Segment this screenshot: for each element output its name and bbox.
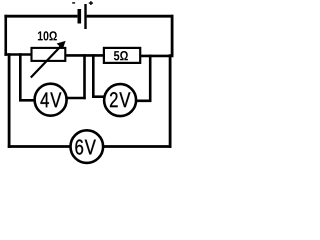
battery cell positive plate (long thin) <box>84 4 86 29</box>
resistor R1 body (10 ohm rheostat) <box>32 48 66 61</box>
wire V2 right drop <box>149 55 152 102</box>
wire top-left (to battery negative) <box>4 15 77 18</box>
label 5 ohm <box>114 51 128 60</box>
rheostat arrow shaft <box>31 46 61 77</box>
wire V1 left drop <box>19 53 22 101</box>
label 4V <box>40 92 61 107</box>
wire bottom <box>8 145 172 148</box>
rheostat arrowhead <box>57 41 66 49</box>
label 6V <box>75 139 95 154</box>
voltmeter V1 circle <box>35 84 67 116</box>
wire resistor row right <box>138 55 174 58</box>
wire right outer upper <box>171 15 174 57</box>
wire V2 left drop <box>92 54 95 98</box>
label 2V <box>110 92 130 107</box>
wire resistor row left <box>4 53 33 56</box>
wire right outer lower <box>169 54 172 148</box>
wire V1 right lead <box>65 97 86 100</box>
wire resistor row middle <box>63 54 106 57</box>
wire V1 left lead <box>19 99 36 102</box>
wire left outer upper <box>4 15 7 56</box>
voltmeter V2 circle <box>104 84 136 116</box>
label 10 ohm <box>38 31 57 40</box>
wire left outer lower <box>8 53 11 148</box>
wire V2 left lead <box>92 95 106 98</box>
resistor R2 body (5 ohm) <box>104 48 140 63</box>
wire V2 right lead <box>134 100 151 103</box>
label + (positive) <box>89 1 93 5</box>
label - (negative) <box>72 2 75 3</box>
wire top-right (from battery positive) <box>87 15 174 18</box>
wire V1 right drop <box>83 54 86 99</box>
voltmeter V3 circle <box>71 130 104 163</box>
battery cell negative plate (short thick) <box>78 9 82 24</box>
